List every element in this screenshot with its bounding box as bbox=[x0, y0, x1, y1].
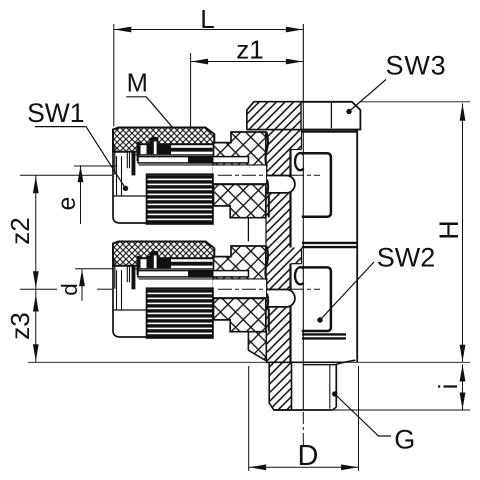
body bottom edge bbox=[266, 360, 355, 362]
svg-text:SW2: SW2 bbox=[377, 243, 436, 273]
svg-text:d: d bbox=[57, 283, 82, 296]
threaded stud wall (section) bbox=[269, 362, 291, 410]
hex flat line bbox=[113, 309, 147, 311]
hex flat line right bbox=[330, 103, 332, 128]
manifold block section (hatched column) bbox=[266, 130, 302, 363]
svg-text:z2: z2 bbox=[5, 217, 35, 244]
body outline right half bbox=[356, 130, 358, 363]
svg-text:H: H bbox=[434, 220, 464, 240]
manifold hex SW3 bbox=[247, 102, 360, 130]
stud shoulder line bbox=[303, 364, 336, 366]
svg-text:e: e bbox=[53, 197, 81, 211]
svg-text:i: i bbox=[433, 384, 463, 390]
washer line under claws bbox=[133, 268, 214, 270]
tube support sleeve bbox=[138, 271, 249, 277]
nut bore left wall bbox=[114, 144, 116, 174]
collet inner end (black segment of sleeve) bbox=[188, 270, 214, 278]
top union nut (crosshatched section) bbox=[113, 128, 214, 152]
ledge between fittings bbox=[247, 218, 249, 242]
retaining ring port 2 bbox=[295, 267, 303, 284]
tube outline bbox=[116, 156, 118, 195]
tube end ticks bbox=[140, 271, 142, 277]
stud bottom edge bbox=[274, 409, 333, 411]
fitting 2 (lower) bbox=[113, 242, 295, 338]
dimension z1 bbox=[190, 53, 192, 127]
lower band bbox=[302, 333, 346, 335]
bore bottom edge (thick) bbox=[213, 183, 267, 185]
tube stop pocket (rounded) bbox=[267, 290, 295, 307]
extension line stud bottom (i) bbox=[333, 409, 470, 411]
bore channel bbox=[213, 166, 266, 185]
bore bottom edge (thick) bbox=[213, 297, 267, 299]
tube support sleeve bbox=[138, 157, 249, 163]
svg-text:z3: z3 bbox=[5, 312, 35, 339]
dimension z3 bbox=[35, 289, 37, 362]
vertical axis line bbox=[302, 24, 304, 410]
centerline fitting 2 bbox=[20, 288, 57, 290]
collet sleeve thick bar bbox=[132, 152, 136, 175]
dimension z2 bbox=[35, 175, 37, 289]
thread boundary (wavy) bbox=[265, 246, 268, 280]
mid hex band bbox=[302, 242, 357, 244]
threaded male end + locknut (coarse crosshatch) bbox=[214, 132, 266, 218]
dimension L bbox=[113, 24, 115, 127]
retaining ring port 1 bbox=[295, 153, 303, 170]
svg-text:M: M bbox=[127, 70, 148, 98]
fitting 1 (upper) bbox=[113, 128, 295, 224]
knurled release sleeve bbox=[147, 288, 213, 338]
hatch wedge below lower fitting bbox=[248, 331, 266, 361]
dimension d bbox=[75, 268, 113, 270]
thread boundary through bore (thin) bbox=[266, 280, 268, 298]
svg-text:D: D bbox=[298, 440, 319, 472]
washer line under claws bbox=[133, 154, 214, 156]
svg-text:G: G bbox=[394, 425, 415, 455]
svg-text:L: L bbox=[200, 4, 214, 34]
extension line bottom (z3) bbox=[28, 361, 470, 363]
svg-text:SW1: SW1 bbox=[27, 98, 84, 128]
stud external thread bbox=[335, 364, 337, 407]
port cavity 1 bbox=[302, 153, 331, 217]
centerline fitting 1 bbox=[20, 174, 112, 176]
tube stop pocket (rounded) bbox=[267, 176, 295, 193]
collet left fingers bbox=[126, 152, 128, 168]
collet / release claws (black) bbox=[137, 251, 213, 269]
nut bore left wall bbox=[114, 258, 116, 288]
dimension e bbox=[74, 165, 116, 167]
collet / release claws (black) bbox=[137, 137, 213, 155]
tube end ticks bbox=[140, 157, 142, 163]
dimension H bbox=[360, 101, 470, 103]
svg-text:z1: z1 bbox=[236, 35, 263, 65]
collet left fingers bbox=[126, 266, 128, 282]
dimension i bbox=[462, 365, 464, 410]
svg-text:SW3: SW3 bbox=[386, 51, 447, 81]
column right edge (counterbore wall) bbox=[289, 150, 291, 248]
thread boundary (wavy) bbox=[265, 132, 268, 166]
band under hex bbox=[302, 131, 357, 133]
fitting hex body SW1 (external view) bbox=[113, 266, 147, 337]
hex flat line bbox=[113, 195, 147, 197]
tube outline bbox=[116, 270, 118, 309]
fitting hex body SW1 (external view) bbox=[113, 152, 147, 223]
dimension D bbox=[248, 366, 250, 471]
top union nut (crosshatched section) bbox=[113, 242, 214, 266]
collet sleeve thick bar bbox=[132, 266, 136, 289]
thread boundary through bore (thin) bbox=[266, 166, 268, 184]
bore channel bbox=[213, 280, 266, 299]
port cavity 2 (SW2) bbox=[302, 267, 331, 331]
collet inner end (black segment of sleeve) bbox=[188, 156, 214, 164]
threaded male end + locknut (coarse crosshatch) bbox=[214, 246, 266, 332]
knurled release sleeve bbox=[147, 174, 213, 224]
